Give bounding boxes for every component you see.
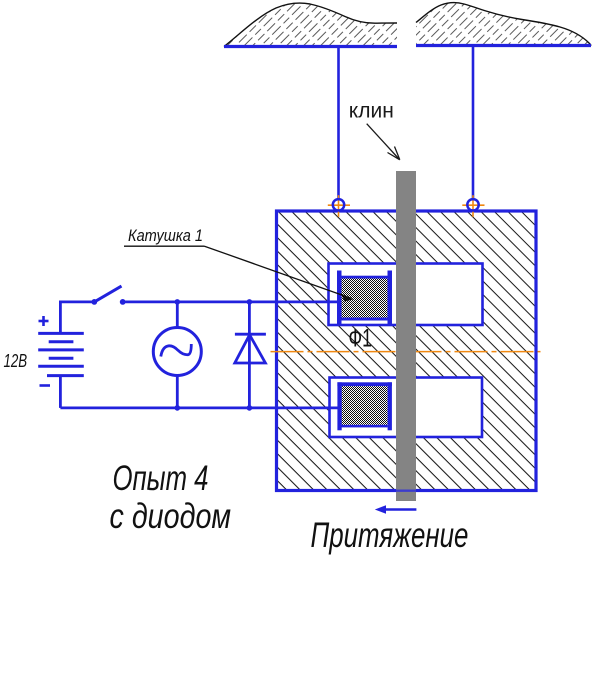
slot upper [329,264,483,326]
ceiling right [416,3,591,46]
hook left [328,195,350,217]
slot lower [330,378,483,438]
wire top (battery to upper coil) [123,300,338,303]
plus [39,316,49,326]
svg-text:с диодом: с диодом [110,496,232,535]
wire left hanging [337,47,340,200]
node dots [175,299,181,305]
svg-text:Притяжение: Притяжение [311,515,469,555]
wire bottom (battery to lower coil) [60,406,338,409]
minus [40,384,51,387]
AC source [153,302,201,408]
wedge (gray bar) [396,171,416,501]
arrow to wedge [367,124,400,160]
coil lower (bobbin, mirrored) [337,382,392,430]
centerline (orange dash-dot) [271,351,541,353]
label Катушка 1 [124,227,353,301]
coil K1 upper (bobbin) [337,271,392,325]
arrow притяжение (left) [375,505,417,513]
svg-text:Опыт 4: Опыт 4 [113,458,209,498]
svg-text:12В: 12В [4,351,28,372]
wire right hanging [472,46,475,200]
ceiling left [224,3,397,46]
battery 12В [38,301,94,408]
svg-text:Катушка 1: Катушка 1 [128,227,203,245]
core block [277,211,537,491]
wire over wedge at block bottom [396,490,416,492]
hook right [462,195,484,217]
diode VD1 [235,302,266,408]
svg-text:Ф1: Ф1 [349,323,372,352]
svg-text:клин: клин [349,99,394,122]
switch S1 [91,286,125,305]
